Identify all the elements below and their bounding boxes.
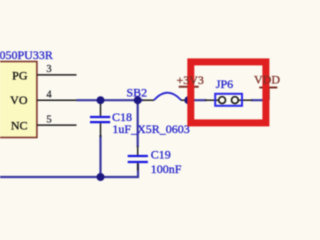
regulator U? body (clipped at left edge) bbox=[0, 62, 37, 138]
pin 3 PG bbox=[12, 64, 76, 82]
svg-text:PG: PG bbox=[12, 68, 28, 82]
svg-text:NC: NC bbox=[11, 118, 28, 132]
capacitor C19 bbox=[128, 146, 148, 171]
label C19 bbox=[151, 148, 171, 162]
svg-text:+3V3: +3V3 bbox=[177, 73, 204, 87]
wire JP6 to VDD bbox=[251, 99, 269, 101]
junction node at +3V3 bbox=[184, 96, 192, 104]
svg-text:VDD: VDD bbox=[254, 73, 280, 87]
power port VDD pin and bar bbox=[259, 88, 277, 101]
svg-text:5: 5 bbox=[46, 114, 51, 125]
junction node at bottom rail bbox=[97, 173, 105, 181]
label JP6 bbox=[216, 77, 233, 91]
power port +3V3 pin and bar bbox=[179, 87, 199, 101]
net label VDD bbox=[254, 73, 280, 87]
label C18 bbox=[112, 110, 132, 124]
wire C19 top vertical bbox=[137, 100, 139, 147]
svg-text:VO: VO bbox=[10, 93, 28, 107]
pin 4 VO bbox=[10, 90, 77, 108]
svg-text:100nF: 100nF bbox=[151, 162, 182, 176]
value 100nF bbox=[151, 162, 182, 176]
wire bottom ground rail bbox=[0, 164, 138, 178]
designator label 050PU33R bbox=[0, 48, 53, 62]
svg-text:JP6: JP6 bbox=[216, 77, 233, 91]
svg-text:C19: C19 bbox=[151, 148, 171, 162]
wire C18 vertical bbox=[99, 135, 101, 177]
jumper JP6 bbox=[205, 94, 252, 106]
svg-text:3: 3 bbox=[46, 64, 51, 75]
svg-text:050PU33R: 050PU33R bbox=[0, 48, 53, 62]
pin 5 NC bbox=[11, 114, 77, 132]
net label +3V3 bbox=[177, 73, 204, 87]
wire from +3V3 node to JP6 bbox=[188, 99, 206, 101]
svg-text:1uF_X5R_0603: 1uF_X5R_0603 bbox=[112, 122, 189, 136]
wire VO net (horizontal main) bbox=[77, 99, 144, 101]
value 1uF_X5R_0603 bbox=[112, 122, 189, 136]
red highlight rectangle annotation bbox=[191, 62, 266, 123]
solder bridge SB2 bbox=[143, 93, 189, 101]
junction node at C18 top bbox=[97, 96, 105, 104]
capacitor C18 bbox=[90, 100, 110, 137]
svg-text:4: 4 bbox=[46, 90, 52, 101]
label SB2 bbox=[127, 85, 148, 99]
junction node at C19 top bbox=[134, 96, 142, 104]
